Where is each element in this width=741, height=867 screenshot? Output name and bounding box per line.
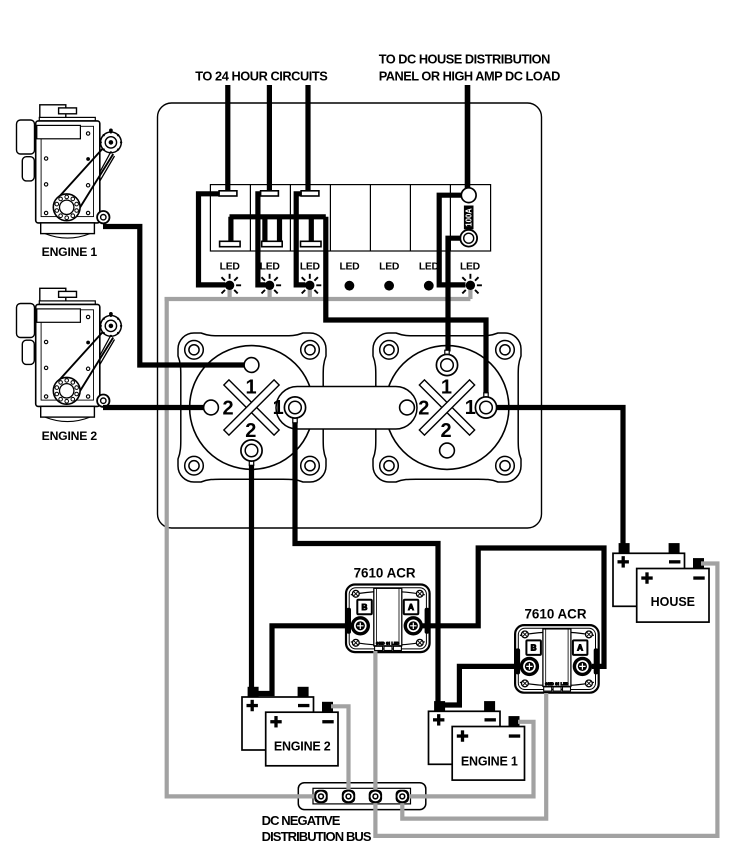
wire switch2 right terminal to HOUSE positive [496,408,624,547]
switch 2 terminals [400,354,497,458]
LED labels [220,262,481,273]
svg-text:ENGINE 2: ENGINE 2 [42,429,98,443]
wire ACR U1 left terminal to ENGINE2 positive [255,626,353,694]
wire fuse2 feed [267,85,272,192]
wire gray HOUSE neg to bus terminal 3 [375,564,717,836]
svg-text:TO 24 HOUR CIRCUITS: TO 24 HOUR CIRCUITS [195,69,328,84]
wire ACR U2 left terminal to ENGINE1 positive [443,666,521,705]
wire engine E1 to switch1 top terminal [103,227,246,366]
battery HOUSE [613,543,709,622]
wire gray LED stubs [230,285,471,299]
gray negative wires [165,285,718,836]
wire jumper legs to fuse bottom terminals [231,217,311,242]
switch 2 X rotor [397,357,497,457]
svg-text:HOUSE: HOUSE [651,595,695,609]
svg-text:ENGINE 1: ENGINE 1 [42,245,98,259]
wire gray ENGINE2 neg to bus terminal 2 [331,706,349,791]
main distribution panel [158,103,542,528]
fuse bottom terminals [220,241,241,246]
wire fuse1 to LED1 [199,194,226,285]
bus terminals [314,790,327,803]
wire fuse1 feed from 24hr circuits [225,85,230,192]
ACR U1 terminals [352,618,368,634]
switch position numbers [222,376,475,442]
svg-text:DC NEGATIVE: DC NEGATIVE [262,813,341,828]
svg-text:2: 2 [222,398,233,420]
engine E2 [17,288,123,421]
switch 1 X rotor [201,357,301,457]
wire switch1 right terminal to ENGINE1 positive [295,421,438,703]
battery switch 2 plate [373,333,521,482]
svg-text:PANEL OR HIGH AMP DC LOAD: PANEL OR HIGH AMP DC LOAD [379,68,560,83]
LED indicators [218,274,241,294]
svg-text:LED: LED [300,262,321,273]
wire fuse bottom jumper bus [230,214,326,219]
svg-text:2: 2 [440,420,451,442]
svg-text:LED: LED [260,262,281,273]
svg-text:LED: LED [419,262,440,273]
wire gray LED bus [165,297,471,301]
wire fuse3 to LED3 [296,194,305,285]
svg-text:ENGINE 1: ENGINE 1 [461,755,518,769]
wire fuse2 to LED2 [258,194,266,285]
svg-text:2: 2 [418,398,429,420]
battery switch 1 plate [178,333,326,482]
100A fuse label [464,206,474,230]
svg-text:DISTRIBUTION BUS: DISTRIBUTION BUS [262,829,372,844]
wire gray ENGINE1 neg to bus terminal 4 [407,722,534,797]
svg-text:1: 1 [245,376,256,398]
DC negative distribution bus body [298,783,426,810]
svg-text:7610 ACR: 7610 ACR [354,566,416,581]
svg-text:LED: LED [460,262,481,273]
wire gray panel to bus terminal 1 [167,297,316,796]
wire switch1 bottom terminal to ENGINE2 positive [249,464,254,690]
ACR U1 body [346,585,430,653]
svg-text:2: 2 [245,420,256,442]
wire gray ACR U2 GND to bus terminal 4 [402,693,546,819]
wire 100A top circle to LED7 [439,195,465,285]
switch 1 terminals [204,358,306,462]
ACR U2 terminals [521,658,537,674]
wire 100A fuse feed from DC house panel [465,85,471,190]
svg-text:LED: LED [379,262,400,273]
fuse block [210,185,490,251]
engine E1 [17,105,123,238]
wire engine E2 to switch1 left terminal [103,405,205,410]
svg-text:LED: LED [220,262,241,273]
svg-text:100A: 100A [464,208,473,227]
100A fuse bottom circle [460,230,477,247]
wire fuse3 feed [305,85,310,192]
terminal necks [249,350,488,465]
battery ENGINE 2 [242,687,338,766]
wire fuse bus feed to switch2 right terminal [326,217,486,395]
svg-text:7610 ACR: 7610 ACR [524,607,586,622]
ACR U2 body [515,625,599,693]
svg-text:TO DC HOUSE DISTRIBUTION: TO DC HOUSE DISTRIBUTION [379,51,550,66]
battery ENGINE 1 [429,701,525,780]
100A fuse top circle [461,188,476,203]
wire 100A bottom circle to switch2 top terminal [448,238,461,351]
svg-text:ENGINE 2: ENGINE 2 [274,740,331,754]
fuse top terminals [219,191,321,247]
wire gray ACR U1 GND to bus terminal 3 [373,651,377,791]
connecting bar between switches [276,387,417,430]
wire ACR U1 right terminal to ACR U2 right terminal [421,548,604,666]
svg-text:1: 1 [441,376,452,398]
svg-text:LED: LED [339,262,360,273]
svg-text:1: 1 [465,397,476,419]
black positive wires [103,85,623,705]
svg-text:1: 1 [273,397,284,419]
